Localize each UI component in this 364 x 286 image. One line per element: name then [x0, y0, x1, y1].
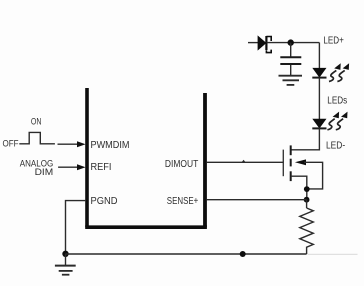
- wire SENSE+: [207, 199, 307, 201]
- PWM waveform: [19, 132, 55, 143]
- channel segment (source): [290, 171, 292, 181]
- junction dot A (source/body): [304, 186, 310, 192]
- svg-text:REFI: REFI: [91, 162, 112, 173]
- IC U1 (box, open top): [85, 88, 207, 227]
- svg-text:LEDs: LEDs: [327, 95, 347, 106]
- junction dot C: [240, 251, 246, 257]
- LED D3: [312, 119, 326, 128]
- wire body to source loop: [304, 162, 323, 189]
- gate bar: [282, 150, 284, 177]
- resistor R1 (sense): [300, 200, 314, 254]
- wire between LEDs: [318, 78, 320, 119]
- junction dot B (SENSE+): [304, 197, 310, 203]
- junction dot (VLED node): [288, 39, 294, 45]
- light arrows for D3: [327, 112, 339, 130]
- LED D2: [312, 68, 326, 77]
- wire stub into diode D1: [248, 42, 258, 44]
- svg-text:DIM: DIM: [35, 167, 54, 177]
- svg-text:DIMOUT: DIMOUT: [165, 159, 198, 170]
- svg-text:LED-: LED-: [326, 140, 345, 151]
- capacitor C1: [280, 43, 301, 75]
- svg-text:SENSE+: SENSE+: [167, 196, 199, 207]
- light arrows for D2: [329, 63, 341, 81]
- wire DIMOUT to gate: [207, 161, 283, 163]
- arrow into REFI: [58, 164, 86, 170]
- body arrow: [295, 159, 306, 165]
- svg-text:PWMDIM: PWMDIM: [91, 140, 130, 151]
- MOSFET Q1: [283, 145, 306, 181]
- channel segment (drain): [290, 145, 292, 155]
- small tick on DIMOUT wire: [242, 160, 246, 163]
- wire LED+ rail down to LED string: [318, 43, 320, 69]
- wire LED- down to drain: [291, 128, 320, 149]
- ground symbol (bottom left): [55, 254, 76, 275]
- wire PGND to ground rail: [66, 201, 87, 254]
- channel segment (body): [290, 159, 292, 167]
- wire diode to LED+ corner: [266, 42, 319, 44]
- arrow into PWMDIM: [58, 141, 86, 147]
- diode D1 (Schottky): [258, 36, 271, 53]
- svg-text:LED+: LED+: [323, 35, 344, 46]
- svg-text:OFF: OFF: [3, 138, 19, 148]
- svg-text:PGND: PGND: [91, 196, 118, 207]
- bottom return wire: [66, 253, 307, 255]
- junction dot (PGND / ground): [62, 251, 68, 257]
- wire source down: [291, 176, 307, 200]
- ground (top, below C1): [279, 76, 303, 85]
- svg-text:ON: ON: [31, 117, 42, 127]
- faint cropped wire (right of resistor): [308, 253, 358, 255]
